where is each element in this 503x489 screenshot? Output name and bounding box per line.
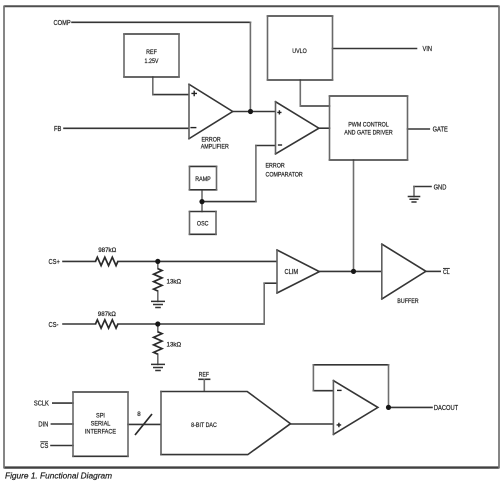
svg-text:REF: REF [146,50,157,57]
svg-text:8: 8 [137,411,141,418]
svg-text:OSC: OSC [197,221,209,228]
svg-text:8-BIT DAC: 8-BIT DAC [191,422,217,429]
svg-text:REF: REF [199,372,210,379]
svg-text:ERROR: ERROR [202,137,222,144]
svg-text:987kΩ: 987kΩ [98,247,116,254]
svg-text:CS-: CS- [49,321,59,329]
svg-text:1.25V: 1.25V [145,59,159,66]
svg-text:CS+: CS+ [49,259,61,267]
svg-text:GATE: GATE [433,126,448,134]
svg-text:AND GATE DRIVER: AND GATE DRIVER [344,130,393,137]
svg-text:AMPLIFIER: AMPLIFIER [201,144,230,151]
svg-text:CLIM: CLIM [284,269,298,277]
svg-text:SCLK: SCLK [34,400,50,408]
svg-text:DIN: DIN [38,421,48,429]
svg-text:UVLO: UVLO [292,49,307,56]
svg-text:13kΩ: 13kΩ [167,278,182,285]
svg-text:INTERFACE: INTERFACE [85,428,116,436]
svg-text:BUFFER: BUFFER [397,299,419,306]
svg-text:13kΩ: 13kΩ [167,341,182,348]
svg-text:CL: CL [443,270,450,277]
svg-text:CS: CS [40,443,48,451]
svg-text:PWM CONTROL: PWM CONTROL [348,122,389,129]
svg-text:SPI: SPI [96,412,105,420]
svg-text:COMPARATOR: COMPARATOR [266,172,304,179]
svg-text:VIN: VIN [423,46,433,54]
svg-text:RAMP: RAMP [195,177,210,184]
svg-text:Figure 1. Functional Diagram: Figure 1. Functional Diagram [5,470,112,480]
svg-text:987kΩ: 987kΩ [98,311,116,318]
svg-text:SERIAL: SERIAL [91,420,111,428]
svg-text:ERROR: ERROR [266,163,286,170]
svg-text:GND: GND [434,184,447,192]
svg-text:DACOUT: DACOUT [434,405,458,413]
svg-text:FB: FB [54,125,61,133]
svg-text:COMP: COMP [54,19,71,27]
